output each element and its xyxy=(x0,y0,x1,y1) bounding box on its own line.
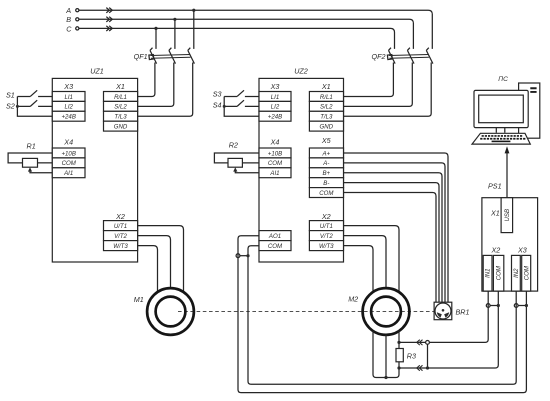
svg-text:+10B: +10B xyxy=(61,150,75,157)
PS1 X3 pin COM2 xyxy=(522,255,531,291)
wire QF2 pole1 to R/L1 xyxy=(344,63,394,97)
wire UZ2 B+ to BR1 xyxy=(344,173,443,302)
junction COM X3 link xyxy=(525,304,528,307)
svg-text:S2: S2 xyxy=(6,101,15,110)
wire UZ2 AO1 left xyxy=(238,236,526,393)
UZ2 X1 pin S/L2 xyxy=(309,101,343,111)
encoder BR1 xyxy=(434,302,469,320)
UZ2 terminal header X5 xyxy=(321,136,332,145)
UZ2 X3 pin LI2 xyxy=(259,101,291,111)
svg-text:X3: X3 xyxy=(63,82,73,91)
connector arrows on phase A xyxy=(106,8,112,13)
UZ2 X4 pin +10B xyxy=(259,148,291,158)
wire QF2 pole3 to T/L3 xyxy=(344,63,432,117)
UZ2 X5 pin A- xyxy=(309,158,343,168)
monitor stand xyxy=(496,128,505,133)
wire QF1 pole1 input xyxy=(155,28,157,49)
UZ2 terminal header X2 xyxy=(321,212,331,221)
wire QF1 pole2 input xyxy=(174,19,176,49)
keyboard xyxy=(472,133,530,144)
UZ1 X2 pin U/T1 xyxy=(104,221,138,231)
frequency converter UZ2 box xyxy=(259,67,344,263)
junction R3 bottom xyxy=(397,366,400,369)
svg-text:QF1: QF1 xyxy=(134,52,148,61)
svg-text:UZ1: UZ1 xyxy=(90,67,104,76)
svg-text:X4: X4 xyxy=(63,138,73,147)
node A label xyxy=(65,6,71,15)
shaft dashed line M1 M2 BR1 xyxy=(178,311,434,313)
svg-text:QF2: QF2 xyxy=(372,52,386,61)
UZ2 X4 pin COM xyxy=(259,158,291,168)
svg-text:LI1: LI1 xyxy=(64,94,72,101)
svg-text:R3: R3 xyxy=(407,351,416,360)
svg-text:S/L2: S/L2 xyxy=(114,104,127,111)
svg-text:R/L1: R/L1 xyxy=(114,94,127,101)
PS1 header X3 xyxy=(517,246,527,255)
wire UZ2 B- to BR1 xyxy=(344,183,440,303)
UZ1 X3 pin LI1 xyxy=(52,92,85,102)
svg-text:X4: X4 xyxy=(270,138,280,147)
svg-text:+10B: +10B xyxy=(268,150,282,157)
node B label xyxy=(66,15,71,24)
svg-text:T/L3: T/L3 xyxy=(114,114,127,121)
UZ2 X2 pin V/T2 xyxy=(309,231,343,241)
link AO1 to COM xyxy=(240,255,248,257)
svg-text:S3: S3 xyxy=(213,89,222,98)
UZ1 terminal header X2 xyxy=(115,212,125,221)
svg-text:ПС: ПС xyxy=(498,76,508,83)
svg-text:R/L1: R/L1 xyxy=(320,94,333,101)
UZ1 X1 pin T/L3 xyxy=(104,111,138,121)
svg-text:X1: X1 xyxy=(490,209,500,218)
svg-text:X2: X2 xyxy=(491,246,501,255)
svg-text:X1: X1 xyxy=(321,82,331,91)
phase B terminal circle xyxy=(76,18,79,21)
UZ2 X3 pin +24B xyxy=(259,111,291,121)
wire S1 S2 to +24B bus xyxy=(17,96,52,116)
wire UZ2 COM X5 to BR1 xyxy=(344,193,437,303)
junction S4 bus xyxy=(223,105,226,108)
PS1 X2 pin IN1 xyxy=(483,255,492,291)
keyboard keys xyxy=(480,135,525,142)
node C label xyxy=(66,24,72,33)
svg-text:COM: COM xyxy=(268,243,283,250)
motor M1 xyxy=(134,288,194,335)
PS1 header X2 xyxy=(491,246,501,255)
svg-text:S/L2: S/L2 xyxy=(320,104,333,111)
wire M2 to R3 top xyxy=(398,331,400,349)
connector arrows R3 top xyxy=(417,340,423,345)
PS1 X3 pin IN2 xyxy=(512,255,521,291)
wire UZ1 W/T3 to M1 xyxy=(138,246,158,293)
link IN1 to COM wire xyxy=(490,305,498,307)
frequency converter UZ1 box xyxy=(52,67,137,263)
UZ1 X3 pin LI2 xyxy=(52,101,85,111)
svg-text:B: B xyxy=(66,15,71,24)
UZ2 pin AO1 xyxy=(259,231,291,241)
UZ2 X1 pin R/L1 xyxy=(309,92,343,102)
svg-text:GND: GND xyxy=(114,124,128,131)
wire QF1 pole3 input xyxy=(193,10,195,49)
svg-text:X1: X1 xyxy=(115,82,125,91)
svg-text:S4: S4 xyxy=(213,100,222,109)
UZ1 X4 pin +10B xyxy=(52,148,85,158)
UZ2 X1 pin T/L3 xyxy=(309,111,343,121)
svg-text:X2: X2 xyxy=(115,212,125,221)
svg-text:R1: R1 xyxy=(27,141,36,150)
UZ2 X5 pin COM xyxy=(309,188,343,198)
svg-text:X5: X5 xyxy=(321,136,332,145)
phase C terminal circle xyxy=(76,27,79,30)
svg-text:AI1: AI1 xyxy=(63,170,73,177)
svg-text:C: C xyxy=(66,24,72,33)
svg-text:LI2: LI2 xyxy=(64,104,73,111)
svg-text:S1: S1 xyxy=(6,90,15,99)
monitor xyxy=(474,90,528,127)
wire UZ2 A+ to BR1 xyxy=(344,153,449,302)
PS1 USB port xyxy=(501,198,512,233)
svg-text:COM: COM xyxy=(319,190,334,197)
svg-text:+24B: +24B xyxy=(61,114,75,121)
motor M2 xyxy=(348,288,409,335)
link R3 taps vertical xyxy=(427,344,429,368)
PS1 header X1 xyxy=(490,209,500,218)
wire phase C bus xyxy=(79,28,395,49)
junction B to QF1 xyxy=(173,18,176,21)
wire phase A bus xyxy=(79,10,432,49)
svg-text:COM: COM xyxy=(62,160,77,167)
socket circle AO1 xyxy=(236,254,240,258)
potentiometer R2 xyxy=(214,141,259,173)
UZ2 X3 pin LI1 xyxy=(259,92,291,102)
junction COM link xyxy=(246,254,249,257)
UZ1 terminal header X4 xyxy=(63,138,73,147)
svg-text:GND: GND xyxy=(320,124,334,131)
UZ2 terminal header X3 xyxy=(270,82,280,91)
junction R3 bottom link xyxy=(426,366,429,369)
PS1 X2 pin COM xyxy=(493,255,503,291)
junction C to QF1 xyxy=(154,27,157,30)
svg-text:AO1: AO1 xyxy=(268,233,281,240)
socket circle R3 top xyxy=(426,341,430,345)
UZ1 X4 pin COM xyxy=(52,158,85,168)
svg-text:LI1: LI1 xyxy=(271,94,279,101)
svg-text:AI1: AI1 xyxy=(269,170,279,177)
svg-text:USB: USB xyxy=(504,209,511,222)
svg-text:IN1: IN1 xyxy=(485,268,492,277)
wire UZ2 W/T3 to M2 xyxy=(344,246,374,293)
wire R3 tap top to IN1 xyxy=(399,291,488,342)
switch S3 xyxy=(213,89,259,98)
wire UZ2 A- to BR1 xyxy=(344,163,446,302)
svg-text:IN2: IN2 xyxy=(513,268,520,278)
svg-text:A: A xyxy=(65,6,71,15)
wire M2 star point left xyxy=(373,331,399,378)
svg-text:V/T2: V/T2 xyxy=(320,233,333,240)
circuit breaker QF2 xyxy=(372,48,433,64)
wire phase B bus xyxy=(79,19,414,49)
UZ1 terminal header X1 xyxy=(115,82,125,91)
svg-text:X2: X2 xyxy=(321,212,331,221)
svg-text:BR1: BR1 xyxy=(456,308,470,317)
svg-text:U/T1: U/T1 xyxy=(320,223,333,230)
svg-text:LI2: LI2 xyxy=(271,104,280,111)
UZ1 X1 pin S/L2 xyxy=(104,101,138,111)
system unit tower xyxy=(519,83,540,138)
svg-text:X3: X3 xyxy=(270,82,280,91)
wire R3 tap bottom to COM xyxy=(399,291,498,368)
svg-text:U/T1: U/T1 xyxy=(114,223,127,230)
wire M2 star point mid xyxy=(385,335,387,378)
resistor R3 xyxy=(396,349,416,362)
wire QF1 pole1 to R/L1 xyxy=(138,63,155,97)
svg-text:PS1: PS1 xyxy=(488,182,502,191)
UZ2 terminal header X4 xyxy=(270,138,280,147)
wire QF2 pole2 to S/L2 xyxy=(344,63,413,107)
svg-text:T/L3: T/L3 xyxy=(320,114,333,121)
arrow to computer xyxy=(505,146,510,153)
svg-text:W/T3: W/T3 xyxy=(113,243,128,250)
connector arrows on phase C xyxy=(106,26,112,31)
UZ1 X1 pin R/L1 xyxy=(104,92,138,102)
UZ2 X5 pin B+ xyxy=(309,168,343,178)
wire S3 S4 to +24B bus xyxy=(224,96,259,116)
UZ1 X4 pin AI1 xyxy=(52,168,85,178)
svg-text:W/T3: W/T3 xyxy=(319,243,334,250)
UZ2 X5 pin A+ xyxy=(309,148,343,158)
connector arrows R3 bottom xyxy=(417,365,423,370)
personal computer PC xyxy=(472,76,540,144)
UZ1 X3 pin +24B xyxy=(52,111,85,121)
circuit breaker QF1 xyxy=(134,48,195,64)
svg-text:UZ2: UZ2 xyxy=(294,67,308,76)
UZ1 X2 pin V/T2 xyxy=(104,231,138,241)
wire UZ2 V/T2 to M2 xyxy=(344,236,387,289)
svg-text:A+: A+ xyxy=(321,150,330,157)
wire QF1 pole3 to T/L3 xyxy=(138,63,193,117)
wire UZ2 U/T1 to M2 xyxy=(344,226,400,293)
socket circle IN1 wire xyxy=(486,304,490,308)
switch S1 xyxy=(6,90,52,99)
UZ2 X1 pin GND xyxy=(309,121,343,131)
junction M2 star mid xyxy=(384,376,387,379)
svg-text:M1: M1 xyxy=(134,295,144,304)
switch S4 xyxy=(213,100,259,109)
potentiometer R1 xyxy=(8,141,52,172)
UZ2 X2 pin W/T3 xyxy=(309,241,343,251)
UZ2 X2 pin U/T1 xyxy=(309,221,343,231)
switch S2 xyxy=(6,100,52,110)
controller PS1 box xyxy=(482,182,538,291)
wire USB to computer xyxy=(506,152,508,198)
svg-text:B-: B- xyxy=(323,180,329,187)
junction A to QF1 xyxy=(192,9,195,12)
svg-text:X3: X3 xyxy=(517,246,527,255)
phase A terminal circle xyxy=(76,9,79,12)
svg-text:V/T2: V/T2 xyxy=(114,233,127,240)
svg-text:COM: COM xyxy=(523,265,530,280)
UZ1 X1 pin GND xyxy=(104,121,138,131)
UZ2 pin COM analog xyxy=(259,241,291,251)
UZ2 X5 pin B- xyxy=(309,178,343,188)
junction COM X2 link xyxy=(497,304,500,307)
wire UZ1 U/T1 to M1 xyxy=(138,226,184,293)
wire UZ2 COM left xyxy=(248,246,516,384)
UZ1 terminal header X3 xyxy=(63,82,73,91)
wire QF1 pole2 to S/L2 xyxy=(138,63,174,107)
wire R3 bottom xyxy=(398,362,400,368)
UZ1 X2 pin W/T3 xyxy=(104,241,138,251)
junction R3 top xyxy=(397,341,400,344)
link IN2 to COM wire xyxy=(518,305,526,307)
wire UZ1 V/T2 to M1 xyxy=(138,236,171,289)
socket circle IN2 wire xyxy=(514,304,518,308)
svg-text:COM: COM xyxy=(268,160,283,167)
UZ2 terminal header X1 xyxy=(321,82,331,91)
svg-text:B+: B+ xyxy=(322,170,330,177)
svg-text:A-: A- xyxy=(322,160,329,167)
svg-text:COM: COM xyxy=(496,265,503,280)
svg-text:M2: M2 xyxy=(348,295,358,304)
UZ2 X4 pin AI1 xyxy=(259,168,291,178)
junction S2 bus xyxy=(16,105,19,108)
svg-text:+24B: +24B xyxy=(268,114,282,121)
svg-text:R2: R2 xyxy=(229,141,238,150)
connector arrows on phase B xyxy=(106,17,112,22)
